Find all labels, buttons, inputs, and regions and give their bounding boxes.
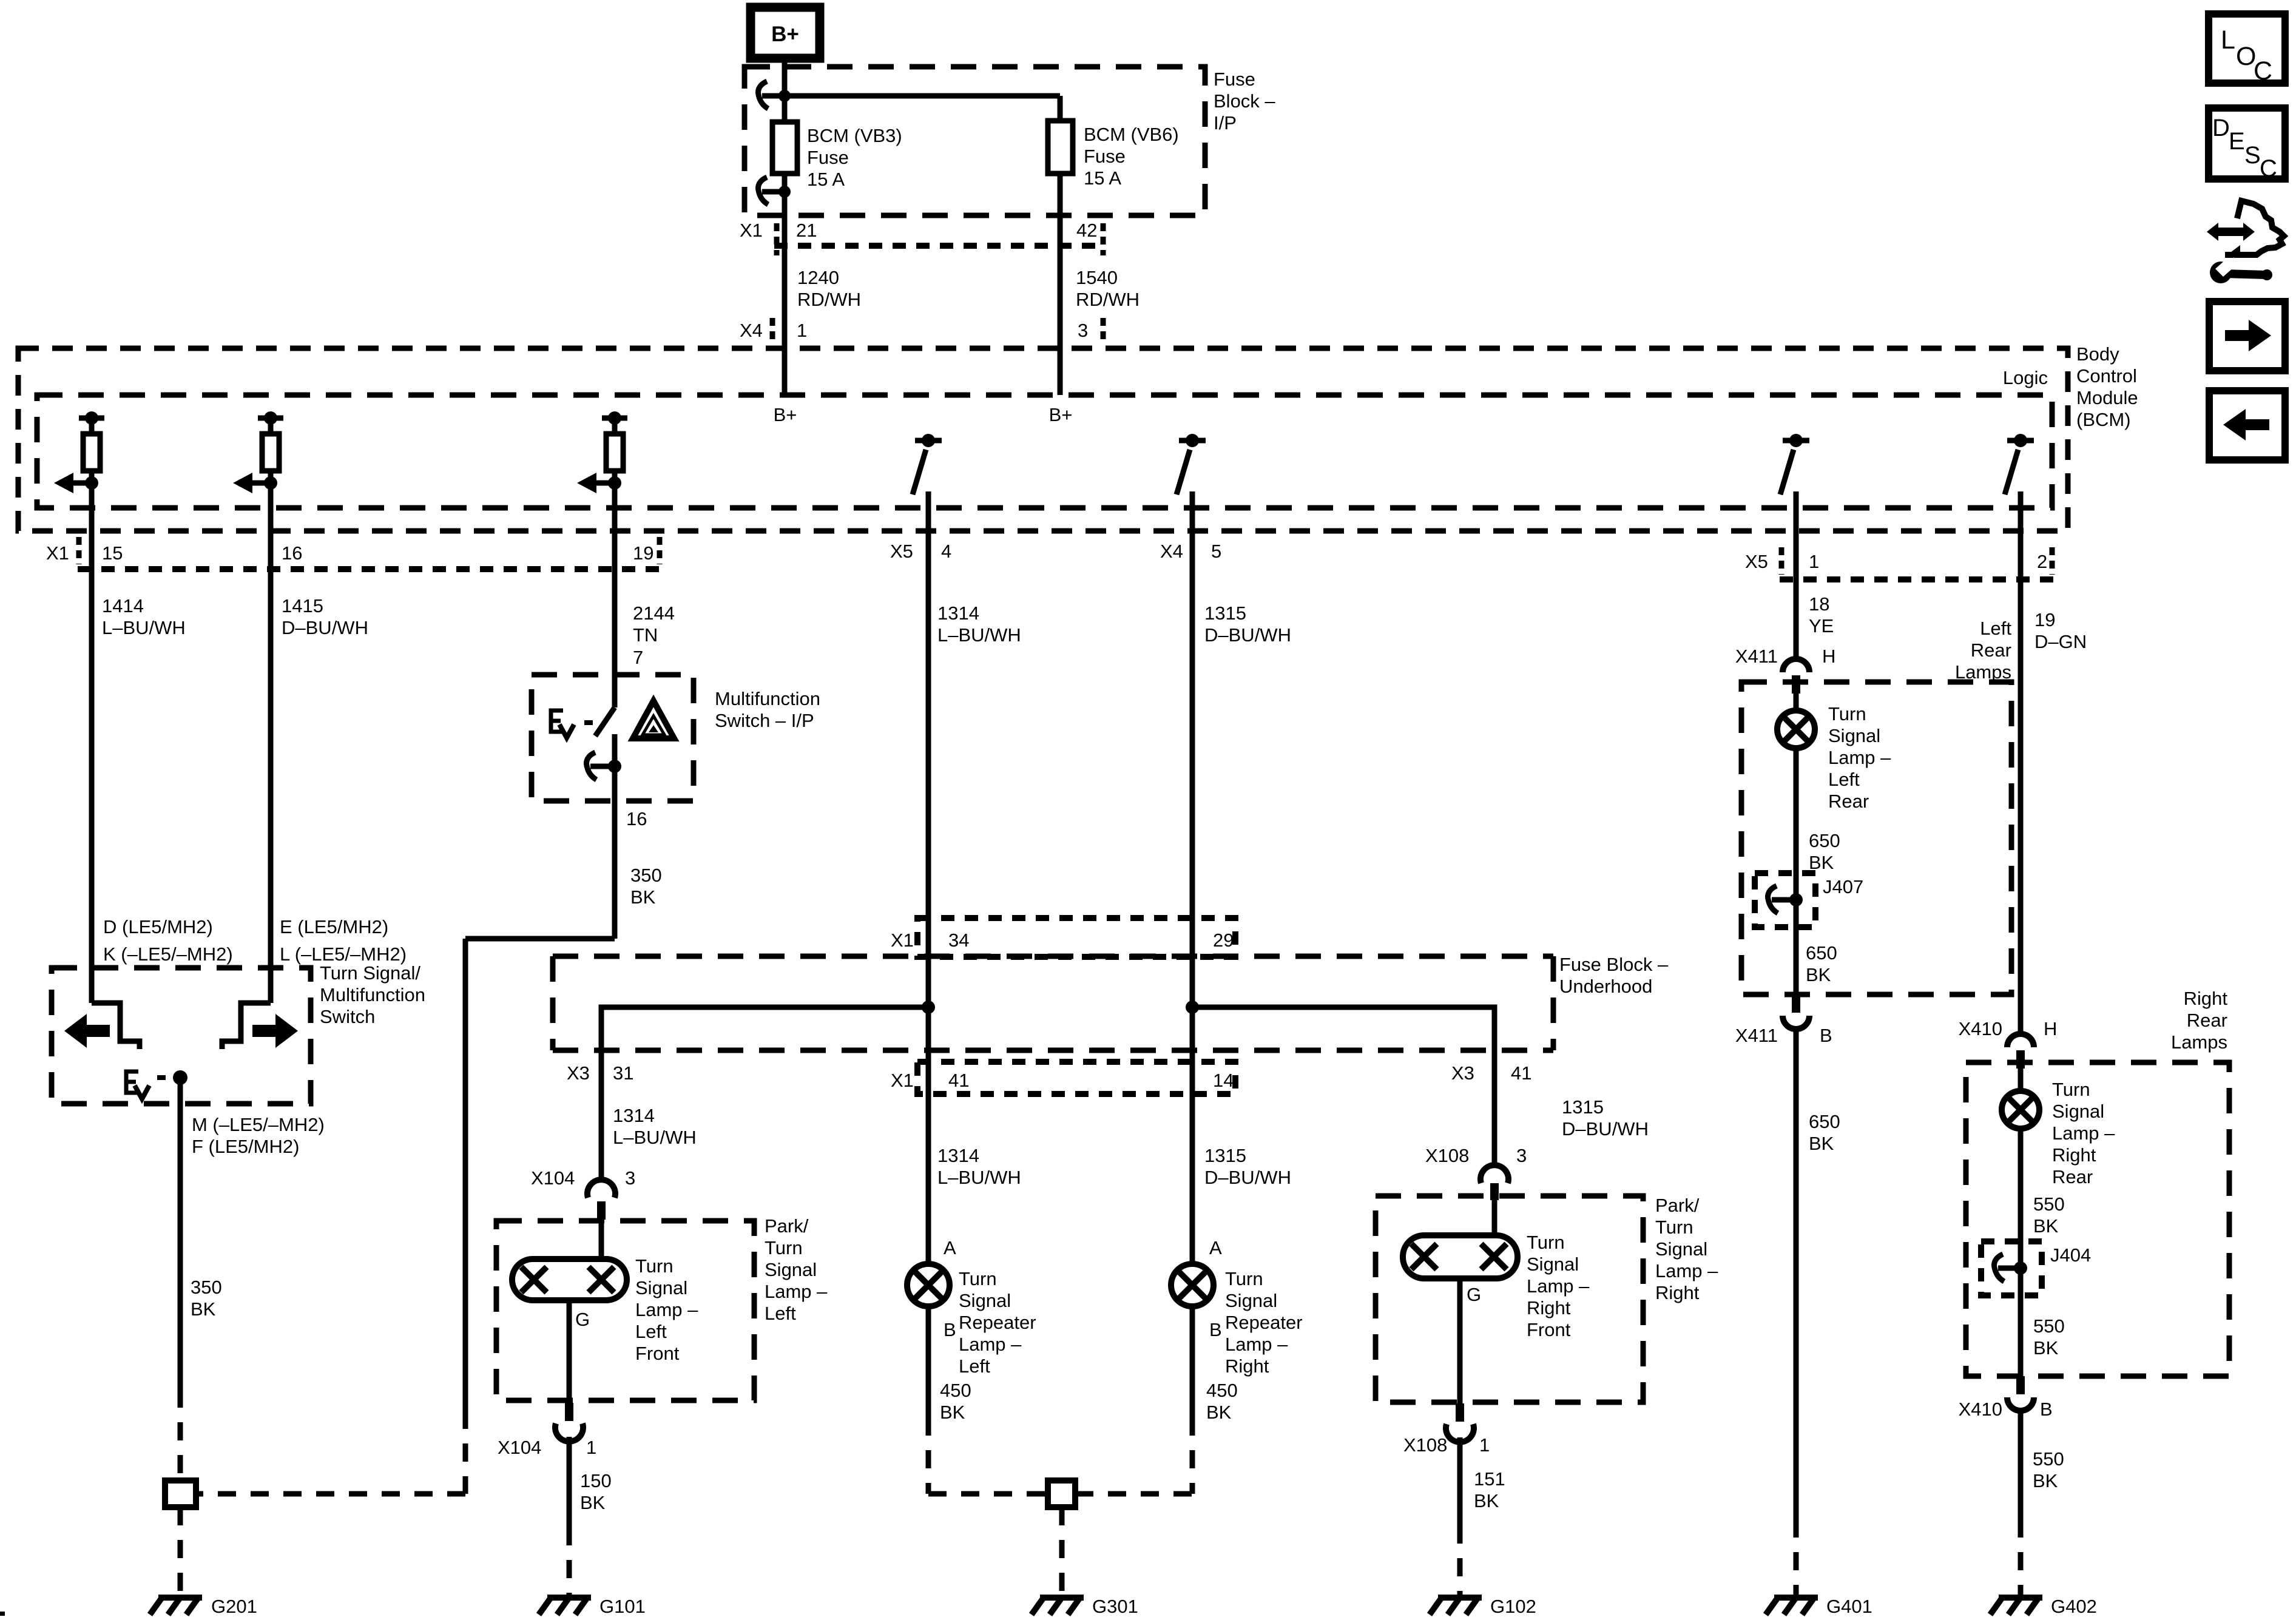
wire right repeater to splice (1190, 1306, 1195, 1494)
svg-text:Repeater: Repeater (959, 1312, 1036, 1333)
svg-text:Underhood: Underhood (1559, 976, 1652, 997)
svg-text:Signal: Signal (1225, 1290, 1277, 1311)
svg-text:34: 34 (948, 930, 969, 951)
svg-text:1: 1 (797, 320, 807, 341)
svg-text:Lamp –: Lamp – (959, 1334, 1022, 1355)
svg-text:1314: 1314 (613, 1105, 655, 1126)
svg-text:Lamp –: Lamp – (1527, 1275, 1590, 1297)
svg-text:Repeater: Repeater (1225, 1312, 1303, 1333)
BCM switch output rear left (X5-1) (1780, 434, 1809, 531)
svg-text:X4: X4 (740, 320, 763, 341)
wire X108 to G102 (1457, 1437, 1463, 1598)
icon service pictogram outline (2225, 201, 2284, 255)
svg-text:Fuse: Fuse (807, 147, 849, 168)
svg-text:Turn: Turn (959, 1268, 997, 1289)
fuse BCM (VB3) 15A (772, 122, 797, 174)
svg-text:X1: X1 (740, 220, 763, 241)
svg-text:3: 3 (625, 1167, 635, 1189)
turn signal repeater lamp left (907, 1264, 950, 1306)
wire left rear lamp to J407 (1794, 748, 1799, 994)
wire into left front lamp (599, 1218, 604, 1259)
svg-text:G402: G402 (2051, 1596, 2097, 1617)
svg-text:42: 42 (1076, 220, 1097, 241)
svg-text:Left: Left (959, 1355, 990, 1377)
svg-text:G102: G102 (1490, 1596, 1536, 1617)
park/turn signal lamp left dashed box (496, 1221, 754, 1400)
svg-text:H: H (1822, 646, 1835, 667)
svg-text:1415: 1415 (282, 595, 323, 616)
right turn arrow pictogram (252, 1014, 298, 1048)
svg-text:X410: X410 (1959, 1018, 2002, 1039)
svg-text:150: 150 (580, 1470, 612, 1491)
svg-text:Left: Left (635, 1321, 667, 1342)
svg-text:BK: BK (1206, 1402, 1232, 1423)
svg-text:16: 16 (282, 542, 302, 564)
svg-text:E: E (2229, 128, 2245, 155)
svg-text:Turn Signal/: Turn Signal/ (320, 962, 420, 984)
fuse holder clip upper (758, 81, 791, 109)
svg-text:G: G (575, 1309, 590, 1330)
svg-text:L–BU/WH: L–BU/WH (613, 1127, 697, 1148)
turn signal repeater lamp right (1171, 1264, 1214, 1306)
svg-text:D–BU/WH: D–BU/WH (1562, 1118, 1649, 1139)
connector X4 BCM row (740, 318, 1103, 342)
svg-text:X3: X3 (567, 1062, 590, 1084)
connector X108-3 (1425, 1145, 1527, 1200)
svg-text:A: A (1209, 1237, 1222, 1258)
svg-text:X108: X108 (1403, 1434, 1447, 1456)
wire into right front lamp (1492, 1199, 1497, 1235)
svg-text:1: 1 (586, 1437, 596, 1458)
svg-text:D–BU/WH: D–BU/WH (1204, 1167, 1291, 1188)
svg-text:Lamp –: Lamp – (1225, 1334, 1288, 1355)
ground G201 (150, 1596, 257, 1617)
svg-text:3: 3 (1078, 320, 1088, 341)
wire bus to right front lamp (1192, 1007, 1494, 1164)
svg-text:Right: Right (2184, 988, 2228, 1009)
svg-text:L–BU/WH: L–BU/WH (102, 617, 186, 638)
wire splice to G201 (178, 1507, 183, 1598)
svg-text:E (LE5/MH2): E (LE5/MH2) (280, 916, 388, 937)
svg-text:19: 19 (633, 542, 653, 564)
svg-text:350: 350 (191, 1277, 222, 1298)
svg-text:D–BU/WH: D–BU/WH (282, 617, 368, 638)
svg-text:BCM (VB6): BCM (VB6) (1084, 124, 1179, 145)
wire X5-1 down to X411 (1794, 531, 1799, 659)
node B+ battery feed box (751, 7, 820, 58)
svg-text:2144: 2144 (633, 603, 675, 624)
svg-text:YE: YE (1809, 615, 1834, 636)
svg-text:Block –: Block – (1214, 90, 1275, 112)
junction dot right bus (1186, 1001, 1199, 1014)
svg-text:A: A (944, 1237, 956, 1258)
svg-text:Turn: Turn (1527, 1232, 1565, 1253)
splice box S301 (1048, 1480, 1075, 1507)
svg-text:B: B (1209, 1319, 1222, 1340)
svg-text:BK: BK (1809, 1133, 1834, 1154)
svg-text:Turn: Turn (635, 1255, 674, 1277)
svg-text:C: C (2254, 56, 2272, 86)
icon LOC box (2209, 14, 2285, 86)
svg-text:Body: Body (2076, 343, 2119, 365)
wire jumper to fuse VB6 (785, 93, 1060, 99)
ground G101 (539, 1596, 646, 1617)
svg-text:29: 29 (1213, 930, 1234, 951)
svg-text:Lamp –: Lamp – (635, 1299, 698, 1320)
svg-text:F (LE5/MH2): F (LE5/MH2) (192, 1136, 299, 1157)
svg-text:L–BU/WH: L–BU/WH (937, 624, 1021, 646)
svg-text:Logic: Logic (2003, 367, 2048, 388)
svg-text:H: H (2044, 1018, 2057, 1039)
connector X1 fuse block underhood top (34/29) (891, 918, 1235, 957)
connector X108-1 (1403, 1403, 1490, 1456)
BCM driver output hazard (pin 19) (577, 411, 627, 493)
wire X5-4 down through fuse block (926, 531, 931, 1264)
svg-text:Multifunction: Multifunction (715, 688, 820, 709)
wire splice to G301 (1059, 1507, 1065, 1598)
svg-text:Lamp –: Lamp – (1655, 1260, 1718, 1281)
svg-text:1314: 1314 (937, 603, 979, 624)
svg-text:X108: X108 (1425, 1145, 1469, 1166)
connector X411-B (1735, 994, 1832, 1046)
wire bus to left front lamp (601, 1007, 928, 1180)
svg-text:Left: Left (765, 1303, 796, 1324)
BCM logic inner dashed box (37, 395, 2052, 508)
junction dot left bus (922, 1001, 935, 1014)
hazard warning triangle symbol (633, 701, 674, 738)
svg-text:1: 1 (1479, 1434, 1490, 1456)
svg-text:J407: J407 (1823, 876, 1863, 897)
wire right lamp ground lead (1457, 1278, 1463, 1403)
connector X410-B (1959, 1376, 2053, 1420)
svg-text:Turn: Turn (2052, 1079, 2090, 1100)
turn signal switch left contact (92, 1003, 140, 1049)
svg-text:Park/: Park/ (765, 1215, 809, 1237)
svg-text:B: B (1820, 1025, 1832, 1046)
wire BCM pin16 down to turn signal switch (268, 493, 274, 1003)
svg-text:BK: BK (2033, 1337, 2059, 1359)
turn signal lamp left front bulb (512, 1259, 627, 1300)
svg-text:650: 650 (1809, 830, 1840, 851)
svg-text:BK: BK (1809, 852, 1834, 873)
svg-text:B+: B+ (771, 22, 799, 46)
svg-text:B: B (2040, 1399, 2053, 1420)
svg-text:X5: X5 (1745, 551, 1768, 572)
svg-text:BK: BK (2033, 1470, 2058, 1491)
svg-text:18: 18 (1809, 593, 1829, 615)
svg-text:550: 550 (2033, 1315, 2065, 1337)
svg-text:41: 41 (948, 1070, 969, 1091)
svg-text:BK: BK (191, 1298, 216, 1320)
svg-text:Right: Right (2052, 1144, 2096, 1166)
svg-text:X104: X104 (498, 1437, 541, 1458)
svg-text:31: 31 (613, 1062, 633, 1084)
turn signal switch lever symbol Ev (126, 1070, 187, 1099)
wire left repeater to splice (926, 1306, 931, 1494)
svg-text:Turn: Turn (1828, 703, 1866, 724)
wire X411 to G401 (1794, 1030, 1799, 1598)
svg-text:RD/WH: RD/WH (797, 289, 861, 310)
svg-text:Right: Right (1225, 1355, 1269, 1377)
svg-text:15 A: 15 A (807, 169, 845, 190)
icon wrench (2210, 260, 2272, 283)
svg-text:Right: Right (1655, 1282, 1700, 1303)
switch pole wire to splice (178, 1078, 183, 1480)
svg-text:X1: X1 (891, 1070, 914, 1091)
svg-text:2: 2 (2037, 551, 2047, 572)
svg-text:X1: X1 (891, 930, 914, 951)
svg-text:550: 550 (2033, 1193, 2065, 1215)
svg-text:1240: 1240 (797, 267, 839, 288)
svg-text:Lamps: Lamps (2171, 1031, 2227, 1053)
multifunction switch I/P dashed box (532, 675, 694, 801)
svg-text:BK: BK (940, 1402, 965, 1423)
svg-text:Lamp –: Lamp – (765, 1281, 828, 1302)
svg-text:Left: Left (1980, 618, 2011, 639)
icon double arrow (2207, 223, 2255, 241)
svg-text:X4: X4 (1160, 541, 1183, 562)
svg-text:1314: 1314 (937, 1145, 979, 1166)
wire hazard 350 BK to splice jog (196, 812, 615, 1494)
splice box S201 (165, 1480, 196, 1507)
svg-text:Signal: Signal (959, 1290, 1011, 1311)
connector X411-H (1735, 646, 1836, 694)
svg-text:1315: 1315 (1562, 1096, 1604, 1118)
svg-text:D–GN: D–GN (2034, 631, 2087, 652)
svg-text:Signal: Signal (635, 1277, 687, 1298)
svg-text:5: 5 (1211, 541, 1221, 562)
connector X5 BCM right row (1745, 547, 2056, 579)
svg-text:Signal: Signal (1655, 1238, 1707, 1260)
svg-text:BK: BK (580, 1492, 606, 1513)
turn signal lamp right front bulb (1403, 1235, 1518, 1278)
svg-text:BK: BK (1806, 964, 1831, 985)
svg-text:Switch: Switch (320, 1006, 375, 1027)
svg-text:RD/WH: RD/WH (1076, 289, 1140, 310)
left turn arrow pictogram (64, 1014, 110, 1048)
ground G402 (1990, 1596, 2097, 1617)
svg-text:Turn: Turn (765, 1237, 803, 1258)
svg-text:450: 450 (940, 1380, 971, 1401)
svg-text:Fuse: Fuse (1214, 69, 1255, 90)
splice bus to G301 (928, 1491, 1192, 1497)
svg-text:I/P: I/P (1214, 112, 1237, 133)
svg-text:X1: X1 (46, 542, 69, 564)
hazard switch blade (595, 707, 615, 736)
svg-text:TN: TN (633, 624, 658, 646)
svg-text:B+: B+ (1049, 404, 1073, 425)
scan artifact dot bottom-left (0, 1612, 5, 1616)
connector X1 fuse block row (740, 220, 1106, 255)
svg-text:Turn: Turn (1655, 1217, 1693, 1238)
fuse holder clip lower (758, 177, 791, 204)
ground G301 (1032, 1596, 1138, 1617)
wire into left rear lamp (1794, 694, 1799, 711)
svg-text:Signal: Signal (1828, 725, 1880, 746)
BCM switch output front left (X5-4) (913, 434, 942, 531)
svg-text:Left: Left (1828, 769, 1860, 790)
wire X104 to G101 (567, 1437, 572, 1598)
svg-text:650: 650 (1806, 942, 1837, 964)
connector X410-H (1959, 1018, 2058, 1068)
svg-text:1414: 1414 (102, 595, 144, 616)
svg-text:BK: BK (1474, 1490, 1499, 1511)
svg-text:Multifunction: Multifunction (320, 984, 425, 1005)
svg-text:D–BU/WH: D–BU/WH (1204, 624, 1291, 646)
svg-text:19: 19 (2034, 609, 2055, 630)
svg-text:BCM (VB3): BCM (VB3) (807, 125, 902, 146)
svg-text:350: 350 (630, 865, 662, 886)
svg-text:L–BU/WH: L–BU/WH (937, 1167, 1021, 1188)
svg-text:16: 16 (626, 808, 647, 829)
svg-text:650: 650 (1809, 1111, 1840, 1132)
ground G401 (1766, 1596, 1872, 1617)
wire right rear lamp to J404 (2018, 1128, 2024, 1376)
svg-text:G101: G101 (599, 1596, 646, 1617)
svg-text:S: S (2244, 142, 2261, 169)
svg-text:X104: X104 (531, 1167, 575, 1189)
left rear lamps dashed box (1741, 682, 2011, 994)
svg-text:B+: B+ (774, 404, 797, 425)
wire into right rear lamp (2018, 1068, 2024, 1092)
turn signal lamp right rear bulb (2002, 1091, 2039, 1129)
svg-text:Module: Module (2076, 387, 2138, 408)
fuse BCM (VB6) 15A (1048, 121, 1073, 174)
svg-text:Turn: Turn (1225, 1268, 1263, 1289)
svg-text:B: B (944, 1319, 956, 1340)
svg-text:Rear: Rear (1971, 640, 2011, 661)
turn signal switch right contact (222, 1003, 271, 1049)
svg-text:X5: X5 (890, 541, 913, 562)
BCM switch output rear right (X5-2) (2005, 434, 2034, 531)
wire BCM pin19 down to hazard switch (612, 493, 618, 707)
wire X4-5 down through fuse block (1190, 531, 1195, 1264)
svg-text:(BCM): (BCM) (2076, 409, 2131, 430)
svg-text:Switch – I/P: Switch – I/P (715, 710, 814, 731)
svg-text:Signal: Signal (765, 1259, 817, 1280)
svg-text:Front: Front (635, 1343, 680, 1364)
wire X5-2 down to X410 (2018, 531, 2024, 1034)
svg-text:BK: BK (630, 886, 656, 908)
svg-text:4: 4 (941, 541, 951, 562)
hazard switch lower contact hook (587, 734, 621, 812)
svg-text:Rear: Rear (2052, 1166, 2093, 1187)
svg-text:X411: X411 (1735, 1025, 1778, 1046)
hazard switch lever symbol Ev (551, 711, 593, 738)
svg-text:41: 41 (1511, 1062, 1531, 1084)
svg-text:G401: G401 (1826, 1596, 1872, 1617)
svg-text:15 A: 15 A (1084, 167, 1121, 189)
svg-text:Lamp –: Lamp – (2052, 1122, 2115, 1144)
svg-text:3: 3 (1516, 1145, 1527, 1166)
ground G102 (1430, 1596, 1536, 1617)
svg-text:L (–LE5/–MH2): L (–LE5/–MH2) (280, 944, 407, 965)
BCM switch output front right (X4-5) (1177, 434, 1206, 531)
park/turn signal lamp right dashed box (1376, 1196, 1643, 1402)
svg-text:Rear: Rear (2187, 1010, 2227, 1031)
svg-text:1540: 1540 (1076, 267, 1118, 288)
svg-text:D: D (2212, 115, 2230, 141)
svg-text:X411: X411 (1735, 646, 1778, 667)
svg-text:Rear: Rear (1828, 791, 1869, 812)
svg-text:X410: X410 (1959, 1399, 2002, 1420)
turn signal / multifunction switch dashed box (52, 968, 311, 1104)
svg-text:Control: Control (2076, 365, 2137, 387)
connector X104-3 (531, 1167, 635, 1220)
wire left lamp ground lead (567, 1300, 572, 1403)
turn signal lamp left rear bulb (1777, 711, 1815, 748)
svg-text:G301: G301 (1092, 1596, 1138, 1617)
BCM driver output left turn (pin 15) (54, 411, 104, 493)
svg-text:1: 1 (1809, 551, 1819, 572)
svg-text:J404: J404 (2050, 1244, 2091, 1266)
icon DESC box (2209, 108, 2285, 182)
BCM driver output right turn (pin 16) (233, 411, 283, 493)
svg-text:Park/: Park/ (1655, 1195, 1700, 1216)
splice J407 (1755, 873, 1863, 927)
svg-text:Right: Right (1527, 1297, 1571, 1318)
right rear lamps dashed box (1966, 1062, 2229, 1376)
wire B+ to fuse VB3 (782, 58, 788, 395)
svg-text:1315: 1315 (1204, 603, 1246, 624)
fuse block underhood dashed box (553, 956, 1553, 1050)
svg-text:M (–LE5/–MH2): M (–LE5/–MH2) (192, 1114, 325, 1135)
svg-text:K (–LE5/–MH2): K (–LE5/–MH2) (103, 944, 233, 965)
svg-text:X3: X3 (1451, 1062, 1474, 1084)
svg-text:7: 7 (633, 647, 643, 668)
connector X104-1 (498, 1403, 596, 1458)
wire BCM pin15 down to turn signal switch (89, 493, 95, 1003)
svg-text:151: 151 (1474, 1468, 1505, 1490)
svg-text:Signal: Signal (2052, 1101, 2104, 1122)
svg-text:Fuse Block –: Fuse Block – (1559, 954, 1669, 975)
splice J404 (1981, 1241, 2091, 1295)
svg-text:C: C (2260, 155, 2277, 182)
fuse block I/P dashed box (745, 67, 1205, 215)
svg-text:L: L (2221, 25, 2235, 55)
icon right arrow box (2209, 302, 2285, 371)
icon left arrow box (2209, 391, 2285, 460)
svg-text:Front: Front (1527, 1319, 1571, 1340)
svg-text:G: G (1467, 1284, 1481, 1305)
svg-text:15: 15 (102, 542, 123, 564)
svg-text:D (LE5/MH2): D (LE5/MH2) (103, 916, 213, 937)
svg-text:21: 21 (796, 220, 817, 241)
connector X1 BCM left row (46, 537, 661, 569)
svg-text:BK: BK (2033, 1215, 2059, 1237)
svg-text:14: 14 (1213, 1070, 1234, 1091)
svg-text:450: 450 (1206, 1380, 1238, 1401)
svg-text:Signal: Signal (1527, 1254, 1579, 1275)
svg-text:1315: 1315 (1204, 1145, 1246, 1166)
svg-text:G201: G201 (211, 1596, 257, 1617)
svg-text:Fuse: Fuse (1084, 146, 1126, 167)
svg-text:Lamp –: Lamp – (1828, 747, 1891, 768)
body control module BCM outer dashed box (18, 348, 2068, 531)
svg-text:550: 550 (2033, 1448, 2064, 1470)
wire X410 to G402 (2018, 1411, 2024, 1598)
connector X1 fuse block underhood bottom (41/14) (891, 1062, 1235, 1094)
